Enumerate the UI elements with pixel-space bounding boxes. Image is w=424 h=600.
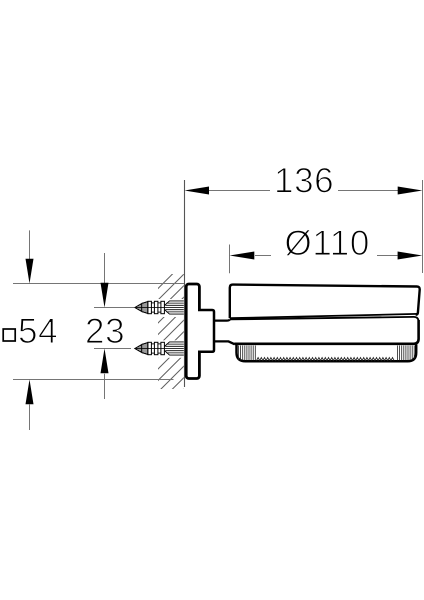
dimension 54 arrows — [26, 230, 34, 430]
hub — [198, 310, 214, 352]
knurled ring outline — [237, 344, 417, 361]
glass dish — [230, 285, 420, 319]
svg-text:23: 23 — [85, 312, 125, 351]
arm bottom edge — [214, 341, 235, 344]
dimension 23 arrows — [101, 253, 109, 399]
svg-text:Ø110: Ø110 — [285, 224, 370, 263]
knurl serration — [257, 358, 395, 361]
svg-text:54: 54 — [18, 312, 58, 351]
dimension O110 line and arrows — [230, 252, 423, 260]
dimension 54 extension lines — [13, 283, 184, 285]
arm top edge — [214, 319, 230, 320]
glass dish bottom edge — [230, 314, 418, 318]
knurl texture right — [398, 346, 415, 361]
screw and anchor bottom — [135, 342, 184, 355]
mounting plate — [186, 284, 199, 379]
dimension 136 line and arrows — [185, 187, 423, 195]
holder ring right and bottom edge — [234, 320, 418, 344]
dimension O110 extension line left — [229, 245, 231, 274]
dimension label square-54 square symbol — [3, 329, 15, 341]
dimension 136 extension line right — [422, 180, 424, 273]
screw and anchor top — [135, 301, 184, 314]
dimension 23 extension lines — [94, 307, 134, 309]
wall face line — [184, 180, 186, 387]
knurl texture left — [239, 346, 256, 361]
wall hatching — [158, 274, 184, 389]
holder ring top edge — [230, 317, 419, 322]
svg-text:136: 136 — [274, 162, 334, 201]
